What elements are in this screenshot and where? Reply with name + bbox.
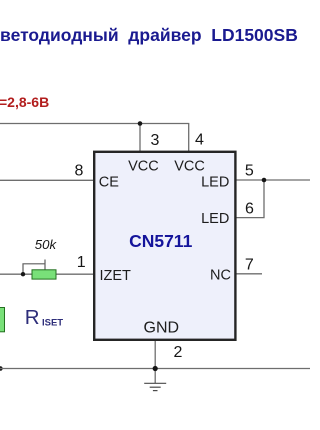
pin number 5: [245, 163, 254, 180]
svg-text:Светодиодный драйвер LD1500S: Светодиодный драйвер LD1500SB: [0, 25, 298, 45]
pin label GND: [144, 319, 180, 336]
svg-text:IZET: IZET: [100, 268, 132, 284]
pin label VCC (pin 3): [128, 159, 159, 175]
pin label CE: [99, 174, 119, 190]
svg-text:GND: GND: [144, 319, 180, 336]
svg-text:4: 4: [195, 132, 204, 149]
wire ground horizontal: [0, 368, 310, 370]
pin number 8: [74, 163, 83, 180]
junction dot LED: [262, 178, 267, 183]
label R ISET: [25, 306, 64, 329]
junction dot GND: [153, 366, 158, 371]
junction dot RISET ground: [0, 366, 3, 371]
IC name CN5711: [129, 231, 193, 251]
svg-text:ISET: ISET: [42, 318, 63, 329]
wire LED pin 6: [236, 180, 264, 218]
pin number 7: [245, 256, 254, 273]
wire GND pin 2 vertical: [154, 341, 156, 383]
svg-text:5: 5: [245, 163, 254, 180]
svg-text:LED: LED: [201, 174, 229, 190]
pin number 3: [151, 132, 160, 149]
IC U1 CN5711 body: [94, 152, 235, 340]
pin label VCC (pin 4): [174, 159, 205, 175]
pin number 1: [77, 254, 86, 271]
svg-text:50k: 50k: [35, 237, 58, 252]
pin number 4: [195, 132, 204, 149]
svg-text:8: 8: [74, 163, 83, 180]
svg-text:R: R: [25, 306, 40, 329]
wire IZET pin 1: [0, 273, 94, 275]
svg-text:2: 2: [174, 344, 183, 361]
svg-text:CN5711: CN5711: [129, 231, 193, 251]
junction dot VCC: [138, 121, 143, 126]
wire VCC supply horizontal: [0, 123, 189, 125]
wire LED pin 5: [236, 179, 310, 181]
pin number 6: [245, 200, 254, 217]
svg-text:7: 7: [245, 256, 254, 273]
svg-text:CE: CE: [99, 174, 119, 190]
svg-text:3: 3: [151, 132, 160, 149]
wire potentiometer wiper: [23, 260, 45, 275]
net label supply voltage =2,8-6В: [0, 94, 49, 110]
wire pin 4 vertical: [188, 124, 190, 152]
svg-text:1: 1: [77, 254, 86, 271]
svg-text:=2,8-6В: =2,8-6В: [0, 94, 49, 110]
svg-text:VCC: VCC: [128, 159, 159, 175]
pin label LED (pin 6): [201, 211, 229, 227]
svg-text:NC: NC: [210, 267, 231, 283]
svg-text:LED: LED: [201, 211, 229, 227]
wire pin 3 vertical: [139, 124, 141, 152]
svg-text:VCC: VCC: [174, 159, 205, 175]
pin label NC: [210, 267, 231, 283]
title Светодиодный драйвер LD1500SB: [0, 25, 298, 45]
ground symbol: [144, 383, 166, 390]
junction dot wiper: [21, 272, 25, 276]
potentiometer R 50k: [32, 270, 56, 279]
pin label LED (pin 5): [201, 174, 229, 190]
wire NC pin 7 stub: [236, 273, 262, 275]
resistor RISET body: [0, 308, 5, 332]
value label 50k: [35, 237, 58, 252]
pin number 2: [174, 344, 183, 361]
svg-text:6: 6: [245, 200, 254, 217]
wire CE pin 8: [0, 179, 94, 181]
pin label IZET: [100, 268, 132, 284]
